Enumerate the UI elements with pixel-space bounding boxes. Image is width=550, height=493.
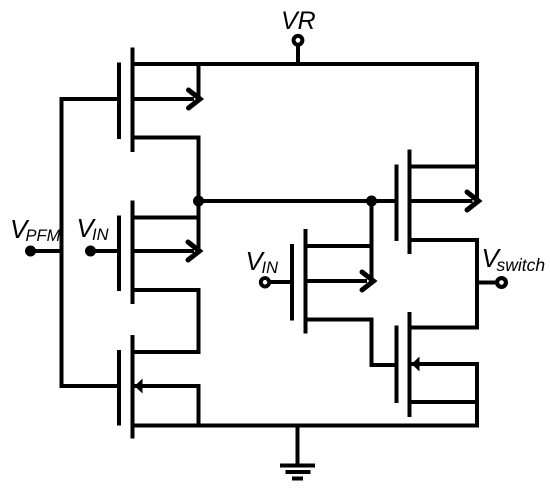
label V_IN (left): [77, 213, 109, 244]
terminal VR: [294, 36, 303, 64]
ground: [280, 426, 315, 479]
svg-text:PFM: PFM: [26, 227, 61, 245]
wire M4 source to M6 gate: [370, 318, 397, 366]
wire M1 gate: [60, 97, 120, 101]
transistor M2 (PMOS, middle-left): [119, 201, 201, 305]
label V_PFM: [10, 214, 61, 245]
terminal V_IN (center): [261, 278, 292, 286]
terminal V_switch: [477, 278, 506, 287]
wire node to M4 drain/body: [370, 199, 374, 281]
wire M6 body/source to bottom rail: [475, 362, 479, 427]
svg-text:IN: IN: [262, 259, 279, 277]
node dot at M1/M2 junction: [193, 196, 204, 207]
terminal V_IN (left): [85, 246, 119, 257]
label V_IN (center): [246, 246, 279, 277]
wire M5 source to V_switch and M6 drain: [475, 238, 479, 330]
node dot at M4 junction: [366, 196, 377, 207]
wire M3 gate: [60, 384, 120, 388]
transistor M4 (PMOS, center): [292, 229, 374, 334]
svg-text:switch: switch: [497, 255, 546, 275]
wire left gate vertical (V_PFM net): [60, 97, 64, 388]
transistor M6 (NMOS, bottom-right): [397, 312, 478, 417]
wire M1 body to top rail: [197, 63, 201, 102]
wire bottom rail (ground net): [131, 424, 480, 428]
wire top rail (VR net): [131, 62, 480, 66]
wire gate node line y=201: [197, 199, 397, 203]
transistor M3 (NMOS, bottom-left): [119, 335, 199, 439]
svg-text:IN: IN: [92, 226, 109, 244]
transistor M1 (PMOS, top-left): [119, 48, 201, 153]
wire M2 source to M3 drain: [197, 288, 201, 354]
transistor M5 (PMOS, top-right): [397, 150, 479, 255]
label V_switch: [482, 243, 546, 275]
wire right vertical VR rail to M5: [475, 63, 479, 202]
wire left connection vertical M1 drain to M2: [197, 136, 201, 252]
terminal V_PFM: [25, 246, 64, 257]
wire M3 body to bottom rail: [197, 384, 201, 427]
svg-text:VR: VR: [281, 7, 316, 35]
